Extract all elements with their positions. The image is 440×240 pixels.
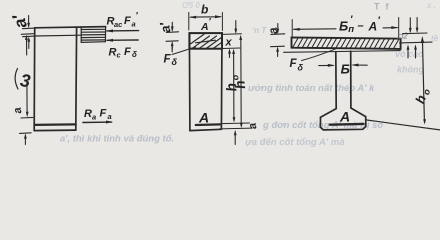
svg-text:⊐2: ⊐2 [397,32,409,41]
svg-text:Б: Б [341,62,350,77]
faint bleed text line mid [248,49,424,94]
dimension ho right [412,36,432,125]
faint bleed text top-right smudge [374,2,395,12]
bottom extension line right [366,120,440,130]
force arrow Ra Fa [83,121,113,124]
flange hatched [292,37,401,49]
T web [320,51,365,130]
dimension b top [189,3,223,31]
flange thickness dim right [400,18,433,59]
svg-text:A: A [198,110,209,126]
svg-text:–: – [358,20,364,32]
dimension a bottom-left [12,106,32,144]
svg-text:δ: δ [298,63,304,73]
svg-text:ưởng tình toán nất thép A′ k: ưởng tình toán nất thép A′ k [248,83,375,94]
label A with rebar (right) [330,109,364,125]
svg-text:a: a [132,19,136,28]
label Fd with leader (right) [290,49,336,73]
dimension a' left of section [157,20,179,52]
svg-text:A: A [339,109,350,125]
svg-text:không: không [397,65,424,75]
label A' top [200,17,212,34]
stress block hatched [81,27,105,43]
svg-text:F: F [124,15,131,27]
svg-text:b: b [201,3,208,17]
faint bleed text bottom-left [60,134,174,145]
beam outline left elevation [34,27,105,131]
bottom up arrow middle [234,130,237,145]
svg-text:ựa đến cốt tổng A′ mà: ựa đến cốt tổng A′ mà [245,137,345,147]
svg-text:F: F [100,108,107,120]
svg-text:A: A [200,21,209,33]
dimension z (з) left [15,34,33,118]
svg-text:R: R [84,108,92,120]
dimension h (middle) [231,35,248,129]
faint bleed text bottom-right [245,137,345,148]
paper background [0,0,440,147]
dimension B web width [319,62,368,77]
svg-text:a: a [92,113,96,122]
dimension a' top-left [9,12,35,49]
line under flange [284,51,401,53]
svg-text:A: A [368,20,378,34]
label Rc Fd [109,46,138,60]
compression zone hatched rect [189,33,222,49]
svg-text:F: F [124,46,131,58]
svg-text:a′, thì khi tính và đúng tố.: a′, thì khi tính và đúng tố. [60,134,174,145]
svg-text:п: п [348,24,354,35]
compression band bottom line [35,34,81,37]
dimension ho (middle) [223,49,241,123]
svg-text:x: x [225,37,233,49]
svg-text:x .: x . [426,1,436,10]
force arrow Rc Fb [106,39,138,42]
dimension B'n - A' top [292,15,399,38]
dimension x right of hatch [223,21,242,58]
svg-text:F: F [290,58,298,70]
faint bleed text line lower [262,120,384,131]
label Ra Fa [84,108,112,122]
svg-text:R: R [109,47,117,59]
flange thickness dim left [265,24,284,57]
svg-text:Tf: Tf [374,2,395,12]
svg-text:δ: δ [172,57,178,67]
label A with rebar (middle) [196,110,221,126]
bottom ticks middle section [220,123,253,129]
label Rac F'a [107,11,139,29]
svg-text:Б: Б [339,19,348,34]
rectangular section outline [189,33,222,131]
label F'd with leader [164,46,196,68]
force arrow Rac F'a [106,29,139,32]
svg-text:a: a [108,112,112,121]
svg-text:Ơ5 0: Ơ5 0 [182,1,200,10]
svg-text:ac: ac [114,20,123,29]
tension rebar line [35,123,76,126]
faint bleed word right edge [426,1,439,43]
svg-text:δ: δ [132,50,137,59]
faint smudge top-middle [182,1,200,10]
faint bleed smudge mid-top [252,26,267,35]
